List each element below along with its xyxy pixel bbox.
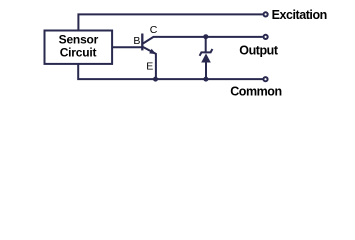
svg-text:Output: Output <box>239 43 279 57</box>
svg-text:Excitation: Excitation <box>272 8 327 22</box>
svg-text:E: E <box>146 60 153 72</box>
svg-text:C: C <box>150 24 158 36</box>
svg-text:B: B <box>133 35 140 47</box>
svg-text:Common: Common <box>230 85 281 99</box>
svg-text:Circuit: Circuit <box>60 45 97 59</box>
